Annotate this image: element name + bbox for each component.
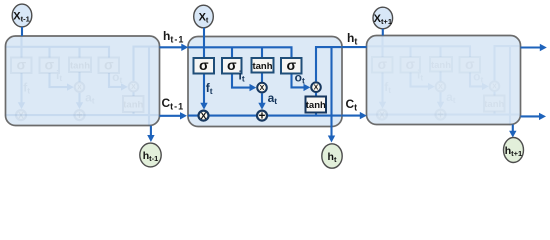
wire: h(t-1) down arrow below left cell	[150, 126, 152, 135]
faded interior wires of left cell	[6, 36, 160, 126]
wire: h(t) output arrow right cell top right	[521, 46, 541, 48]
right LSTM cell body (faded)	[367, 36, 521, 125]
interior wires of center cell	[188, 37, 342, 127]
wire: h(t-1) arrow from left cell into center cell	[160, 46, 182, 48]
faded interior wires of right cell	[367, 36, 521, 126]
wire: h(t+1) down arrow below right cell	[512, 125, 514, 132]
interior parts of center cell	[194, 57, 327, 123]
svg-text:Ct-1: Ct-1	[162, 96, 185, 112]
wire: C(t) output arrow right cell bottom right	[521, 115, 540, 117]
faded interior parts of right cell	[372, 56, 505, 122]
node h(t) output ellipse	[322, 144, 342, 168]
node X(t) input circle	[194, 5, 214, 28]
node X(t+1) input circle	[373, 7, 393, 29]
wire: X(t+1) stub into right cell	[382, 29, 384, 36]
left LSTM cell body (faded)	[6, 36, 160, 126]
node h(t-1) output ellipse	[140, 143, 161, 167]
svg-text:Ct: Ct	[346, 97, 358, 113]
faded interior parts of left cell	[11, 56, 144, 122]
wire: h(t) line from center cell to right cell	[342, 46, 367, 48]
wire: X(t-1) stub into left cell	[21, 27, 23, 36]
svg-text:ht: ht	[347, 31, 357, 47]
node h(t+1) output ellipse	[504, 138, 524, 163]
wire: C(t-1) arrow from left cell into center cell	[160, 115, 181, 117]
center LSTM cell body	[188, 37, 342, 127]
svg-text:ht-1: ht-1	[163, 29, 184, 45]
wire: h(t) down arrow below center cell	[330, 127, 332, 137]
wire: X(t) stub into center cell	[203, 28, 205, 37]
wire: C(t) arrow from center cell into right cell	[342, 115, 360, 117]
node X(t-1) input circle	[12, 4, 32, 27]
